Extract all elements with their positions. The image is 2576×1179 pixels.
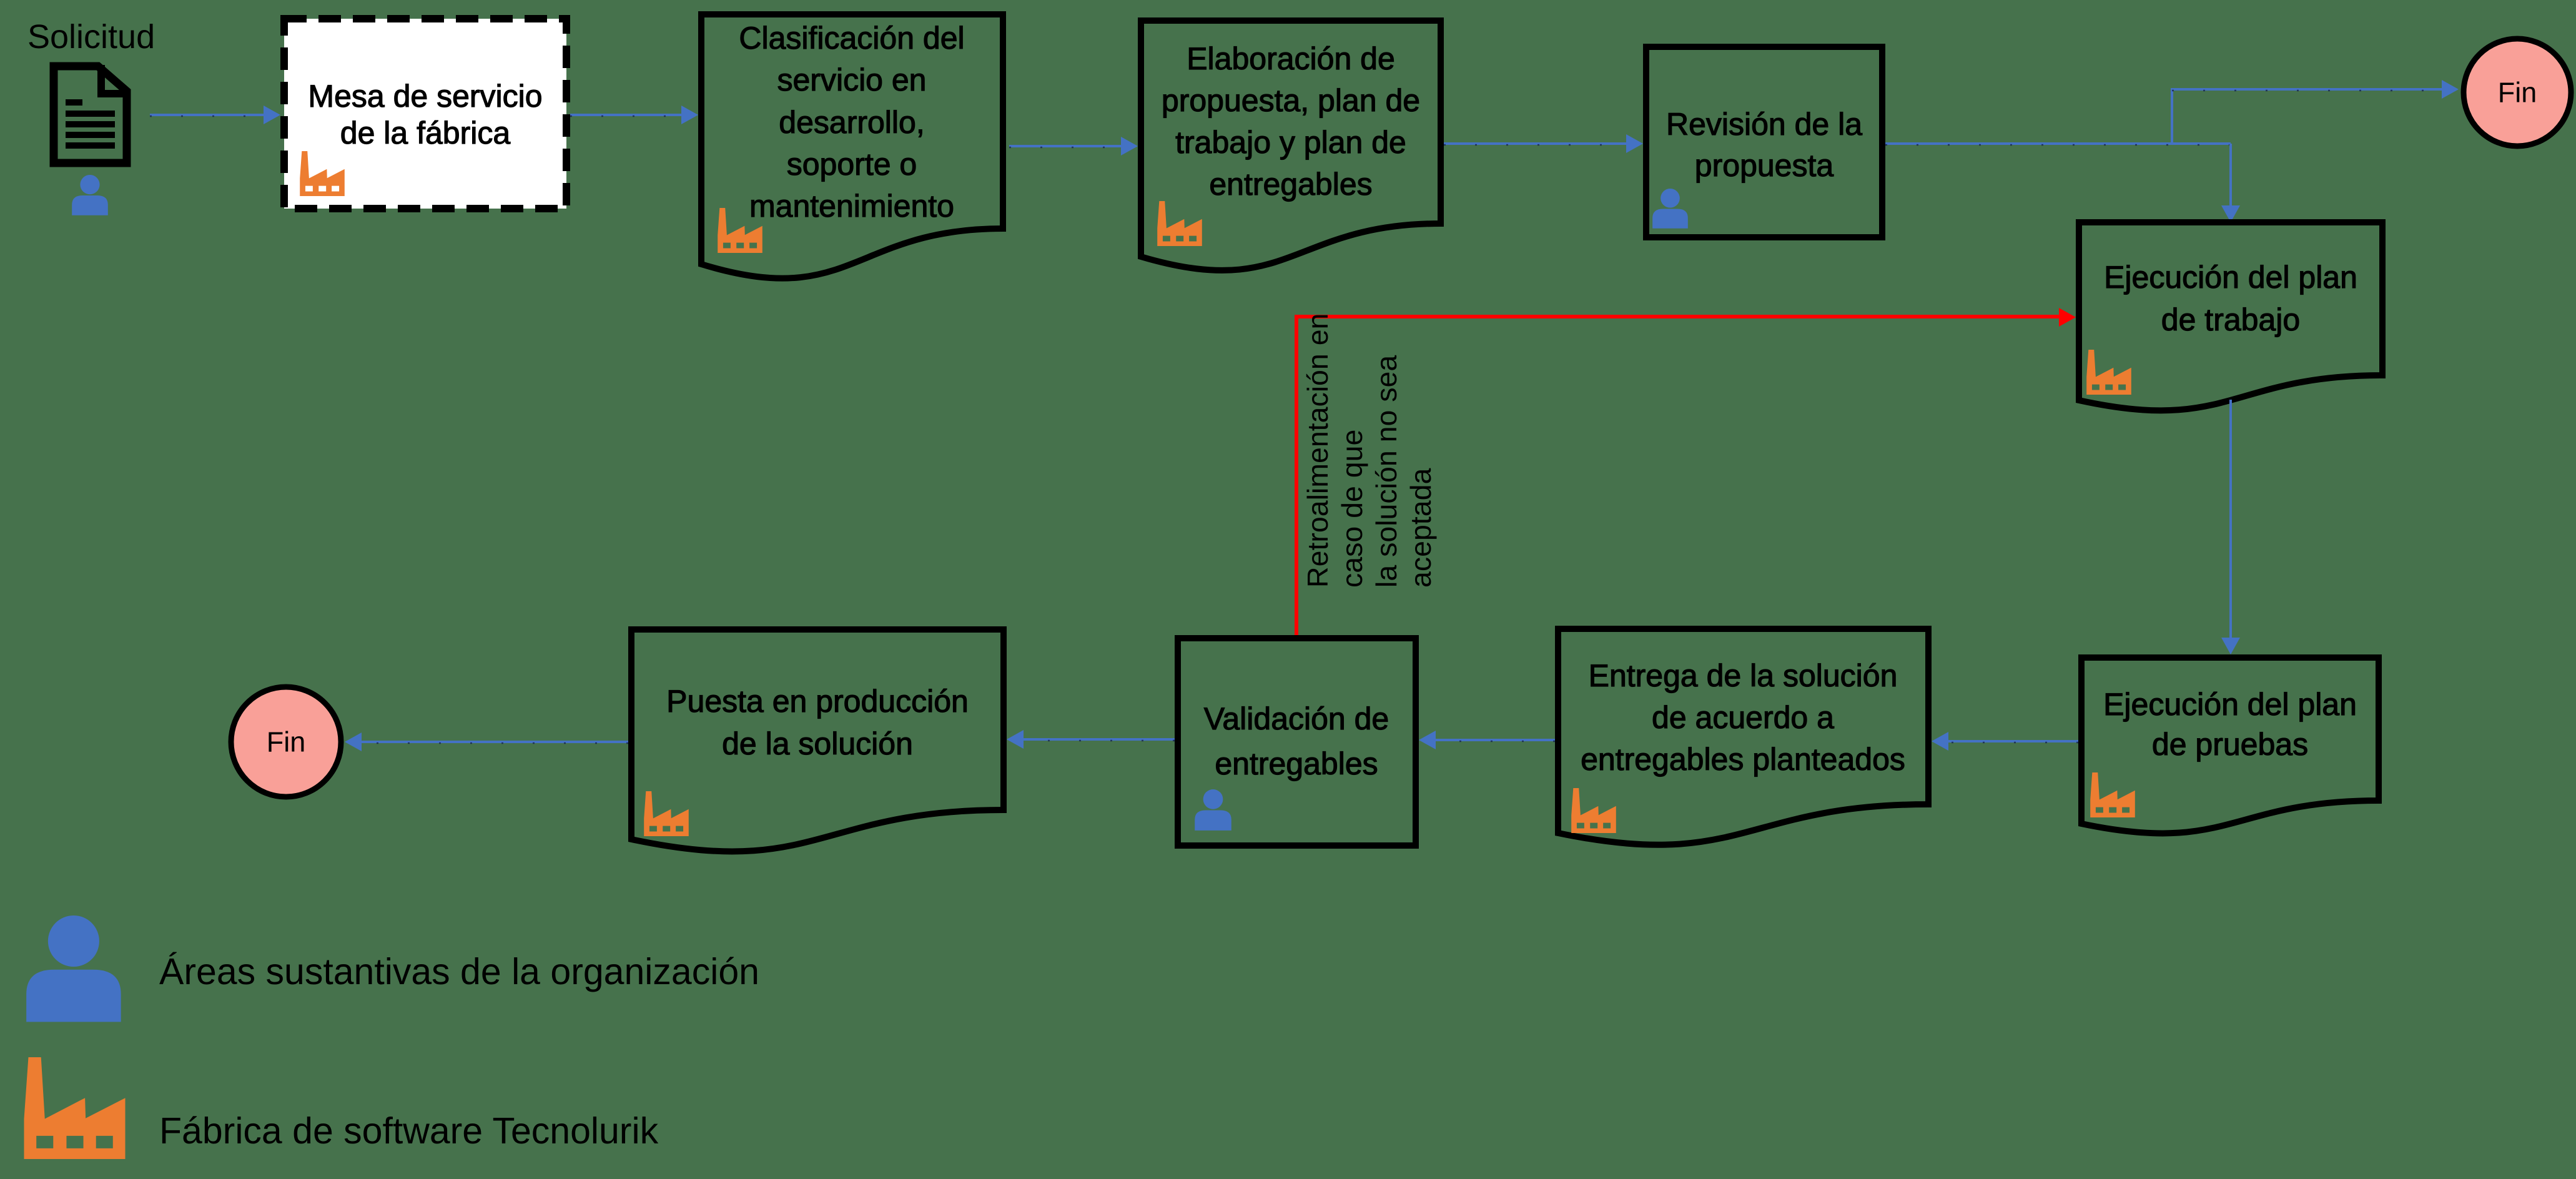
svg-text:soporte o: soporte o (787, 147, 917, 182)
svg-text:Mesa de servicio: Mesa de servicio (308, 79, 542, 114)
wire Entrega to Validacion (1433, 739, 1555, 741)
terminator Fin (top right) (2464, 39, 2571, 146)
wire Puesta to Fin (bottom left) (359, 741, 628, 743)
feedback wire red Validacion to Ejecucion trabajo (1296, 317, 2061, 635)
process box Mesa de servicio de la fabrica (284, 19, 566, 209)
svg-text:Retroalimentación en: Retroalimentación en (1301, 313, 1334, 588)
person icon (Validacion) (1195, 789, 1231, 831)
svg-text:Puesta en producción: Puesta en producción (666, 684, 969, 719)
svg-text:Fábrica de software Tecnolurik: Fábrica de software Tecnolurik (159, 1110, 659, 1152)
document shape Clasificacion del servicio (701, 14, 1003, 279)
factory icon (Elaboracion) (1157, 201, 1202, 246)
svg-text:Ejecución del plan: Ejecución del plan (2103, 687, 2357, 722)
svg-text:trabajo y plan de: trabajo y plan de (1175, 125, 1406, 160)
label Retroalimentacion (rotated) (1301, 313, 1437, 588)
wire Mesa to Clasificacion (570, 114, 684, 116)
svg-text:propuesta: propuesta (1695, 148, 1834, 183)
svg-text:caso de que: caso de que (1336, 430, 1368, 588)
wire Solicitud to Mesa (150, 114, 266, 116)
svg-text:Solicitud: Solicitud (27, 18, 155, 56)
factory icon (Puesta) (644, 791, 689, 836)
svg-text:aceptada: aceptada (1404, 468, 1437, 588)
svg-text:de la fábrica: de la fábrica (340, 116, 511, 150)
factory icon (Ejecucion pruebas) (2090, 772, 2135, 817)
document shape Elaboracion de propuesta (1141, 21, 1441, 270)
factory icon (Entrega) (1571, 788, 1616, 833)
terminator Fin (bottom left) (231, 687, 341, 797)
document shape Entrega de la solucion (1558, 629, 1928, 845)
document shape Ejecucion del plan de pruebas (2081, 658, 2379, 833)
factory icon (Clasificacion) (718, 208, 762, 253)
wire Elaboracion to Revision (1444, 142, 1629, 145)
svg-text:entregables: entregables (1215, 746, 1378, 781)
svg-text:entregables: entregables (1209, 167, 1372, 202)
svg-text:la solución no sea: la solución no sea (1370, 355, 1403, 588)
svg-text:desarrollo,: desarrollo, (779, 105, 924, 140)
wire Validacion to Puesta (1021, 738, 1175, 741)
svg-text:Elaboración de: Elaboración de (1187, 41, 1395, 76)
wire Revision to junction (1885, 142, 2231, 145)
svg-text:de pruebas: de pruebas (2152, 727, 2308, 762)
document shape Ejecucion del plan de trabajo (2079, 222, 2382, 410)
legend factory icon (24, 1057, 125, 1159)
process box Revision de la propuesta (1646, 47, 1882, 237)
svg-text:Revisión de la: Revisión de la (1666, 107, 1862, 142)
svg-text:mantenimiento: mantenimiento (749, 189, 954, 224)
factory icon (Mesa) (300, 151, 345, 196)
document icon (Solicitud) (54, 65, 127, 163)
process box Validacion de entregables (1178, 638, 1416, 846)
wire Ejecucion trabajo down to Ejecucion pruebas (2229, 400, 2232, 640)
factory icon (Ejecucion trabajo) (2086, 350, 2131, 395)
svg-text:de acuerdo a: de acuerdo a (1652, 700, 1834, 735)
svg-text:entregables planteados: entregables planteados (1581, 742, 1905, 777)
wire branch down to Ejecucion del plan de trabajo (2229, 144, 2232, 208)
svg-text:Fin: Fin (2498, 77, 2537, 109)
svg-text:Clasificación del: Clasificación del (739, 21, 964, 56)
svg-text:Fin: Fin (267, 726, 306, 758)
wire Ejecucion pruebas to Entrega (1946, 740, 2078, 742)
svg-text:Entrega de la solución: Entrega de la solución (1589, 658, 1898, 693)
person icon (Revision) (1652, 189, 1688, 229)
svg-text:Áreas sustantivas de la organi: Áreas sustantivas de la organización (159, 951, 759, 992)
wire Clasificacion to Elaboracion (1009, 145, 1123, 147)
svg-text:propuesta, plan de: propuesta, plan de (1162, 83, 1420, 118)
wire branch up to Fin (2172, 89, 2444, 144)
document shape Puesta en produccion (631, 629, 1004, 851)
legend person icon (26, 915, 121, 1022)
svg-text:de trabajo: de trabajo (2161, 302, 2300, 337)
svg-text:de la solución: de la solución (722, 726, 913, 761)
svg-text:servicio en: servicio en (777, 62, 927, 97)
svg-text:Ejecución del plan: Ejecución del plan (2104, 260, 2357, 295)
person icon (Solicitud actor) (72, 175, 108, 215)
svg-text:Validación de: Validación de (1204, 701, 1389, 736)
